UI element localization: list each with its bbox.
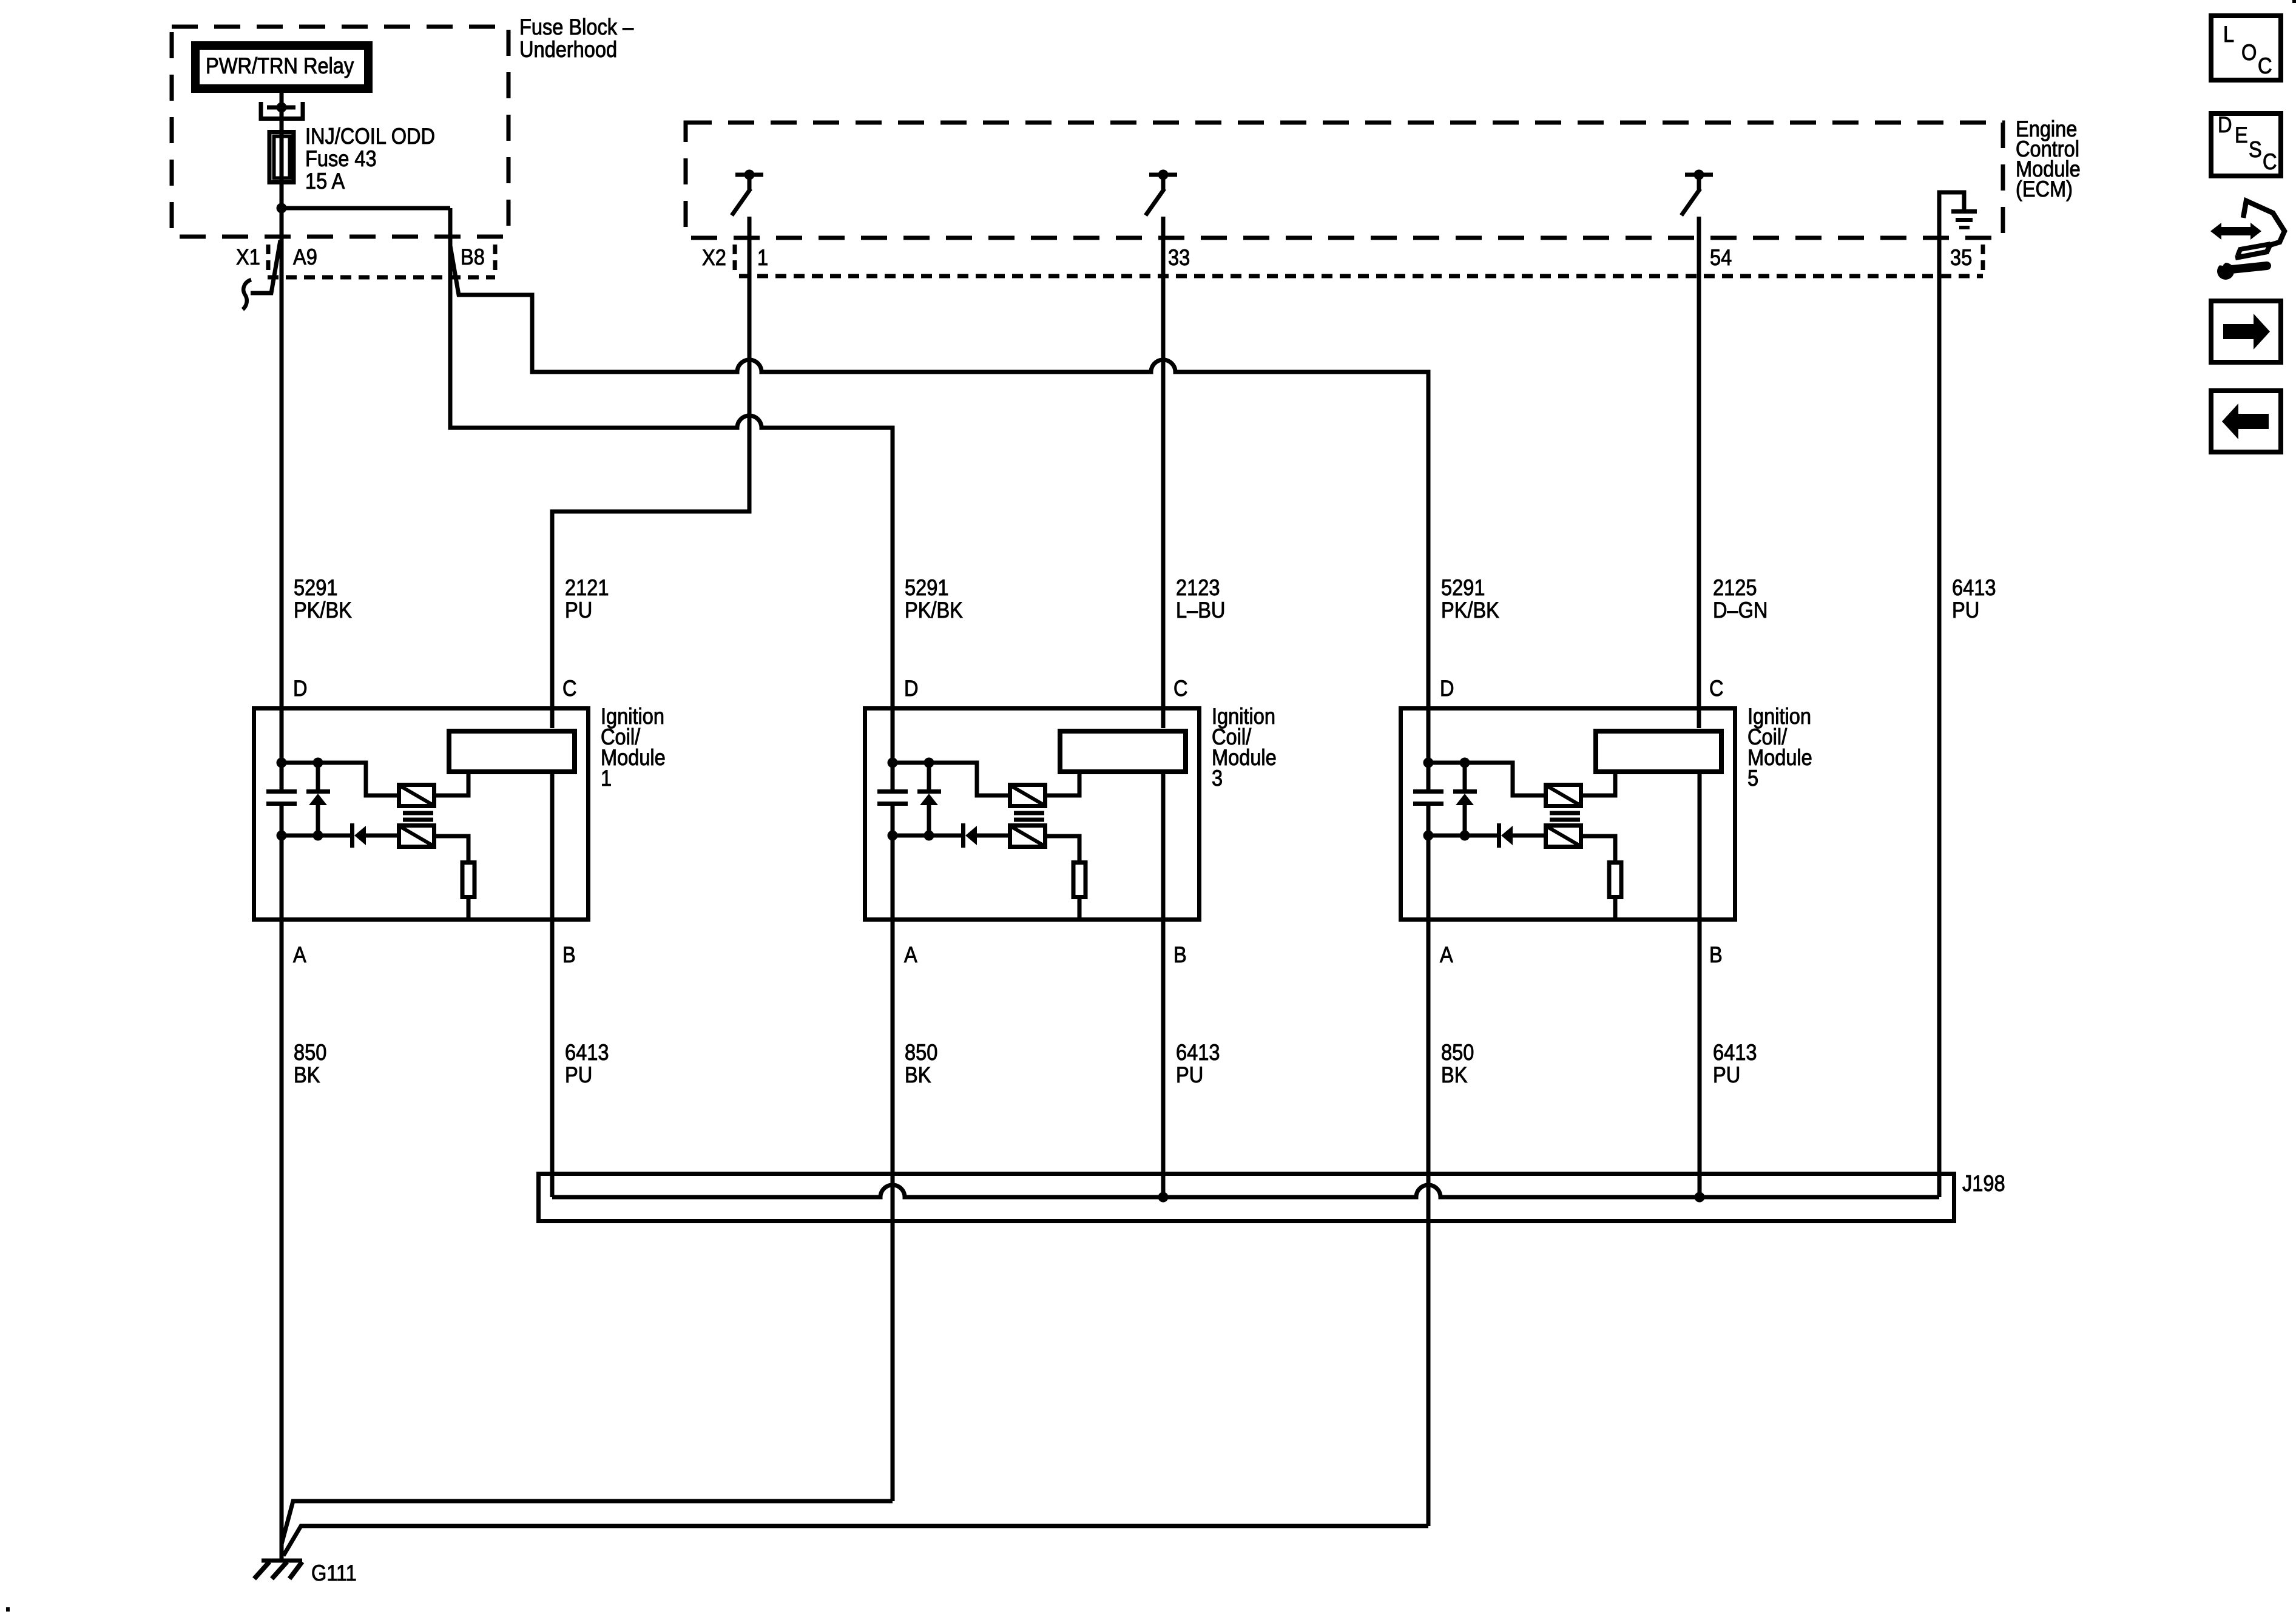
svg-text:BK: BK — [1441, 1062, 1467, 1087]
svg-text:5: 5 — [1747, 766, 1758, 791]
svg-text:6413: 6413 — [565, 1040, 609, 1065]
svg-text:INJ/COIL ODD: INJ/COIL ODD — [305, 124, 435, 149]
svg-text:PU: PU — [1952, 598, 1979, 623]
svg-text:PK/BK: PK/BK — [905, 598, 963, 623]
svg-text:D: D — [2218, 112, 2232, 137]
svg-text:E: E — [2235, 123, 2248, 147]
svg-text:A9: A9 — [293, 245, 317, 269]
svg-text:6413: 6413 — [1952, 575, 1996, 600]
svg-text:5291: 5291 — [294, 575, 337, 600]
svg-text:BK: BK — [294, 1062, 320, 1087]
svg-text:PU: PU — [1713, 1062, 1740, 1087]
svg-text:Underhood: Underhood — [519, 37, 617, 62]
svg-text:33: 33 — [1168, 245, 1190, 270]
svg-text:C: C — [1709, 676, 1724, 701]
svg-text:850: 850 — [905, 1040, 937, 1065]
svg-text:G111: G111 — [311, 1561, 357, 1585]
svg-text:A: A — [293, 942, 306, 967]
svg-text:850: 850 — [294, 1040, 326, 1065]
svg-text:C: C — [2258, 53, 2272, 78]
svg-text:2121: 2121 — [565, 575, 609, 600]
svg-text:X1: X1 — [236, 245, 260, 269]
svg-text:L: L — [2223, 22, 2234, 47]
svg-text:B: B — [1709, 942, 1723, 967]
svg-text:PK/BK: PK/BK — [294, 598, 352, 623]
svg-text:1: 1 — [757, 245, 768, 270]
svg-text:PWR/TRN Relay: PWR/TRN Relay — [206, 53, 354, 78]
svg-text:S: S — [2249, 137, 2262, 162]
svg-text:D: D — [904, 676, 919, 701]
svg-text:2125: 2125 — [1713, 575, 1757, 600]
svg-text:1: 1 — [601, 766, 612, 791]
svg-text:D–GN: D–GN — [1713, 598, 1768, 623]
svg-text:3: 3 — [1212, 766, 1223, 791]
svg-text:15 A: 15 A — [305, 169, 345, 194]
svg-text:J198: J198 — [1962, 1171, 2005, 1196]
svg-text:L–BU: L–BU — [1176, 598, 1225, 623]
svg-text:54: 54 — [1710, 245, 1732, 270]
svg-text:B: B — [562, 942, 576, 967]
svg-text:A: A — [904, 942, 917, 967]
svg-text:Fuse 43: Fuse 43 — [305, 146, 377, 171]
svg-text:A: A — [1440, 942, 1453, 967]
svg-text:PU: PU — [1176, 1062, 1203, 1087]
svg-text:6413: 6413 — [1176, 1040, 1220, 1065]
svg-text:C: C — [562, 676, 577, 701]
svg-text:C: C — [2263, 149, 2277, 174]
svg-text:6413: 6413 — [1713, 1040, 1757, 1065]
svg-text:(ECM): (ECM) — [2016, 177, 2073, 201]
svg-text:O: O — [2241, 40, 2257, 65]
svg-text:PU: PU — [565, 1062, 592, 1087]
svg-text:850: 850 — [1441, 1040, 1474, 1065]
svg-text:C: C — [1173, 676, 1188, 701]
svg-text:B: B — [1173, 942, 1187, 967]
svg-text:D: D — [293, 676, 308, 701]
svg-text:B8: B8 — [461, 245, 485, 269]
svg-text:5291: 5291 — [1441, 575, 1485, 600]
svg-text:35: 35 — [1950, 245, 1972, 270]
svg-text:2123: 2123 — [1176, 575, 1220, 600]
svg-text:BK: BK — [905, 1062, 931, 1087]
svg-text:Fuse Block –: Fuse Block – — [519, 15, 634, 39]
svg-text:X2: X2 — [702, 245, 726, 270]
svg-text:PU: PU — [565, 598, 592, 623]
svg-text:5291: 5291 — [905, 575, 948, 600]
svg-text:D: D — [1440, 676, 1454, 701]
svg-text:PK/BK: PK/BK — [1441, 598, 1499, 623]
